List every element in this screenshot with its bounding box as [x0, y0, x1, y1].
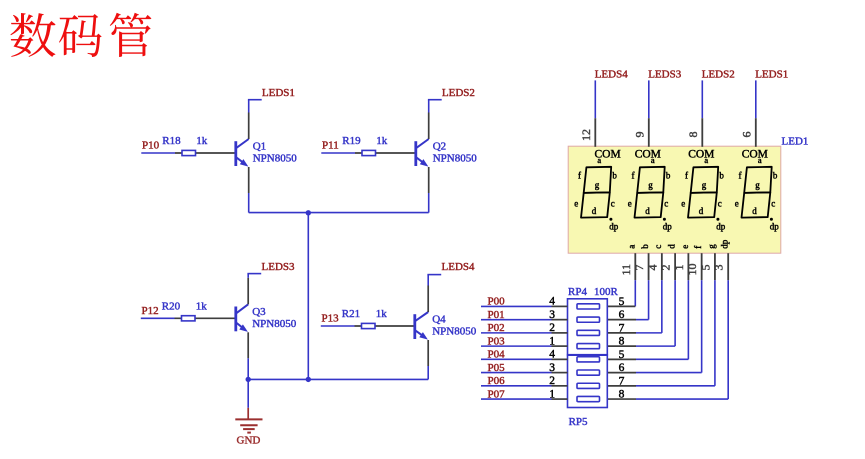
svg-text:4: 4 [549, 349, 555, 361]
svg-text:f: f [632, 171, 635, 181]
svg-text:Q1: Q1 [253, 141, 266, 153]
svg-text:LED1: LED1 [782, 135, 809, 147]
svg-text:4: 4 [645, 265, 659, 271]
svg-text:R18: R18 [162, 135, 181, 147]
svg-text:6: 6 [619, 309, 625, 321]
svg-text:LEDS2: LEDS2 [442, 87, 475, 99]
svg-text:RP5: RP5 [569, 416, 588, 428]
svg-text:R20: R20 [162, 300, 181, 312]
svg-text:Q4: Q4 [432, 314, 446, 326]
svg-text:f: f [693, 246, 703, 249]
svg-text:8: 8 [686, 132, 700, 138]
svg-text:1: 1 [549, 335, 555, 347]
svg-text:g: g [595, 180, 600, 190]
svg-text:LEDS3: LEDS3 [262, 261, 296, 273]
svg-text:7: 7 [632, 265, 646, 271]
svg-text:d: d [699, 206, 704, 216]
svg-text:12: 12 [579, 129, 593, 141]
svg-text:e: e [680, 245, 690, 249]
svg-text:8: 8 [619, 336, 625, 348]
svg-text:dp: dp [609, 221, 619, 231]
svg-text:P12: P12 [142, 305, 159, 317]
svg-text:a: a [758, 155, 762, 165]
svg-text:6: 6 [619, 362, 625, 374]
svg-text:a: a [597, 155, 601, 165]
svg-text:P01: P01 [488, 309, 505, 321]
svg-text:dp: dp [716, 221, 726, 231]
svg-text:9: 9 [632, 132, 646, 138]
svg-text:LEDS4: LEDS4 [595, 69, 629, 81]
svg-text:5: 5 [698, 265, 712, 271]
svg-text:LEDS1: LEDS1 [755, 69, 788, 81]
svg-text:LEDS2: LEDS2 [702, 69, 735, 81]
svg-text:5: 5 [619, 296, 625, 308]
svg-text:LEDS4: LEDS4 [442, 261, 476, 273]
svg-text:dp: dp [720, 239, 730, 249]
svg-text:1k: 1k [196, 135, 208, 147]
svg-text:NPN8050: NPN8050 [253, 153, 298, 165]
svg-text:Q3: Q3 [252, 306, 266, 318]
svg-text:b: b [719, 171, 724, 181]
svg-text:c: c [653, 245, 663, 249]
svg-text:Q2: Q2 [433, 141, 446, 153]
svg-text:d: d [667, 244, 677, 249]
svg-text:10: 10 [685, 264, 699, 276]
svg-text:g: g [706, 244, 716, 249]
svg-text:3: 3 [549, 309, 555, 321]
svg-text:e: e [574, 199, 578, 209]
svg-text:e: e [628, 199, 632, 209]
svg-text:P06: P06 [488, 375, 506, 387]
svg-text:P05: P05 [488, 362, 506, 374]
svg-text:GND: GND [237, 434, 261, 446]
svg-text:d: d [645, 206, 650, 216]
svg-text:P02: P02 [488, 322, 505, 334]
svg-text:d: d [592, 206, 597, 216]
svg-text:COM: COM [742, 148, 768, 160]
svg-text:P03: P03 [488, 335, 506, 347]
svg-text:2: 2 [549, 375, 555, 387]
svg-text:LEDS1: LEDS1 [262, 87, 295, 99]
svg-text:P13: P13 [322, 313, 340, 325]
svg-text:COM: COM [635, 148, 661, 160]
svg-text:e: e [735, 199, 739, 209]
svg-text:8: 8 [619, 389, 625, 401]
svg-text:g: g [648, 180, 653, 190]
svg-text:1k: 1k [196, 300, 208, 312]
svg-text:g: g [755, 180, 760, 190]
svg-text:7: 7 [619, 322, 625, 334]
svg-text:c: c [718, 199, 722, 209]
svg-text:NPN8050: NPN8050 [432, 326, 477, 338]
svg-text:1: 1 [549, 388, 555, 400]
svg-text:b: b [640, 244, 650, 249]
svg-text:2: 2 [549, 322, 555, 334]
svg-text:P00: P00 [488, 296, 506, 308]
svg-text:6: 6 [739, 132, 753, 138]
svg-text:11: 11 [619, 264, 633, 276]
svg-text:3: 3 [549, 362, 555, 374]
svg-text:a: a [627, 245, 637, 249]
svg-text:4: 4 [549, 296, 555, 308]
svg-text:b: b [666, 171, 671, 181]
svg-text:f: f [739, 171, 742, 181]
svg-text:NPN8050: NPN8050 [252, 318, 297, 330]
svg-text:RP4: RP4 [568, 286, 587, 298]
svg-text:c: c [611, 199, 615, 209]
svg-text:P11: P11 [322, 140, 339, 152]
svg-text:P10: P10 [142, 140, 160, 152]
svg-text:d: d [752, 206, 757, 216]
svg-text:a: a [704, 155, 708, 165]
svg-text:dp: dp [663, 221, 673, 231]
svg-text:f: f [685, 171, 688, 181]
svg-text:1: 1 [672, 265, 686, 271]
svg-text:dp: dp [770, 221, 780, 231]
svg-text:b: b [612, 171, 617, 181]
svg-text:e: e [681, 199, 685, 209]
svg-text:R19: R19 [342, 135, 361, 147]
svg-text:COM: COM [688, 148, 714, 160]
svg-text:7: 7 [619, 375, 625, 387]
svg-text:R21: R21 [342, 308, 360, 320]
svg-text:NPN8050: NPN8050 [433, 153, 478, 165]
svg-text:1k: 1k [376, 135, 388, 147]
svg-text:g: g [702, 180, 707, 190]
svg-text:b: b [773, 171, 778, 181]
svg-text:100R: 100R [594, 286, 619, 298]
svg-text:P04: P04 [488, 349, 506, 361]
svg-text:1k: 1k [376, 308, 388, 320]
svg-text:c: c [664, 199, 668, 209]
svg-text:2: 2 [659, 265, 673, 271]
svg-text:a: a [651, 155, 655, 165]
svg-text:c: c [771, 199, 775, 209]
svg-text:P07: P07 [488, 388, 506, 400]
svg-text:5: 5 [619, 349, 625, 361]
svg-text:3: 3 [712, 265, 726, 271]
svg-text:LEDS3: LEDS3 [648, 69, 682, 81]
svg-text:f: f [578, 171, 581, 181]
